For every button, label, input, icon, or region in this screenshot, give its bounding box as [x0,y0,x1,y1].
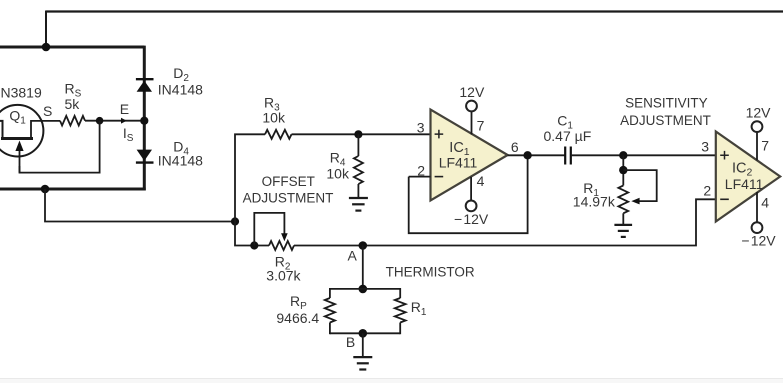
wire R3 to IC1 [292,133,432,135]
svg-text:ADJUSTMENT: ADJUSTMENT [620,113,711,128]
wire lower rail [294,199,716,245]
svg-text:Q1: Q1 [9,108,26,127]
wire IC2 pin4 stub [756,192,758,222]
wire thermistor top rail [330,288,400,290]
svg-text:R1: R1 [411,299,427,318]
wire source feedback [20,121,100,173]
svg-text:3: 3 [417,120,425,136]
wire R4 bottom stub [357,184,359,198]
resistor R1 pot zigzag [618,186,628,214]
node junction bottom-left [41,185,50,194]
potentiometer R1 wiper arrowhead [631,198,639,205]
potentiometer R2 wiper arrowhead [281,233,288,241]
svg-text:THERMISTOR: THERMISTOR [386,264,475,279]
op-amp IC2 minus sign [720,198,729,200]
node E junction [140,117,148,125]
resistor R4 zigzag [354,156,363,184]
svg-text:10k: 10k [262,109,286,125]
svg-text:LF411: LF411 [439,154,478,170]
transistor Q1 channel bar [1,137,33,140]
capacitor C1 plates [565,147,571,165]
wire R4 top stub [357,134,359,156]
node IC1 output junction [523,151,531,159]
wire bottom-left drop [45,189,235,222]
wire C1 to IC2 [571,154,716,156]
svg-text:3: 3 [701,139,709,155]
svg-text:IS: IS [123,125,134,144]
svg-text:OFFSET: OFFSET [262,174,315,189]
svg-text:0.47 µF: 0.47 µF [544,128,592,144]
svg-text:5k: 5k [65,96,81,112]
svg-text:S: S [43,103,52,119]
svg-text:E: E [120,101,129,117]
wire R1t top stub [399,288,401,298]
wire top rail drop [45,11,47,48]
diode D4 bar [136,161,154,163]
svg-text:12V: 12V [746,105,772,121]
svg-text:4: 4 [477,173,485,189]
wire R3 left drop [235,134,269,245]
ground B [353,356,372,358]
wire IC1 pin7 stub [471,112,473,135]
svg-text:12V: 12V [459,84,485,100]
op-amp IC1 triangle [431,110,508,201]
svg-text:14.97k: 14.97k [573,194,616,210]
supply terminal IC2 -12V [752,222,763,233]
supply terminal IC1 +12V [466,101,477,112]
wire R1 stub [622,155,624,185]
wire IC1 pin4 stub [470,177,472,201]
wire bus bottom [0,188,146,191]
transistor Q1 drain lead [0,121,3,140]
bottom page strip [0,379,783,383]
resistor R3 zigzag [265,130,292,139]
wire IC1 minus input [409,176,431,178]
svg-text:2: 2 [703,183,711,199]
diode D2 bar [136,78,154,80]
svg-text:10k: 10k [326,166,350,182]
wire R1t bottom stub [399,323,401,335]
wire IC1 feedback loop [409,155,528,233]
op-amp IC1 minus sign [435,176,444,178]
op-amp IC2 triangle [716,132,780,222]
svg-text:IN4148: IN4148 [158,153,203,169]
svg-text:− 12V: − 12V [741,233,776,249]
svg-text:ADJUSTMENT: ADJUSTMENT [243,191,334,206]
transistor Q1 gate arrowhead [15,141,23,152]
wire RP top stub [329,288,331,298]
op-amp IC2 plus sign [720,151,729,160]
svg-text:7: 7 [477,118,485,134]
node R1 wiper junction [619,166,627,174]
node B junction [359,329,368,338]
resistor R2 zigzag [269,241,294,250]
node feedback junction [231,217,239,225]
svg-text:N3819: N3819 [1,84,42,100]
svg-text:9466.4: 9466.4 [276,310,319,326]
svg-text:3.07k: 3.07k [266,268,301,284]
node thermistor top [359,285,368,294]
svg-text:− 12V: − 12V [454,211,489,227]
wire top rail [46,10,783,12]
svg-text:7: 7 [761,138,769,154]
ground R1 pot [614,224,632,226]
wire thermistor bottom rail [330,332,400,334]
resistor RP zigzag [325,298,335,322]
current arrow IS [121,118,127,124]
wire IC1 output [508,154,566,156]
node S-RS junction [96,117,104,125]
ground R4 [349,197,368,199]
svg-text:B: B [346,334,355,350]
resistor R1 thermistor zigzag [395,298,406,322]
svg-text:6: 6 [511,139,519,155]
node R4 junction [354,130,362,138]
node junction top-left [42,43,51,52]
wire B ground stub [362,333,364,357]
wire IC2 pin7 stub [756,132,758,160]
node R1 top junction [619,151,627,159]
supply terminal IC1 -12V [466,201,477,212]
wire RS to node E [85,120,144,122]
op-amp IC1 plus sign [435,130,444,139]
wire node A drop [362,246,364,289]
supply terminal IC2 +12V [752,121,763,132]
svg-text:4: 4 [761,195,769,211]
wire R1 ground stub [622,213,624,225]
wire bus top [0,46,144,49]
node R2 left junction [250,241,258,249]
diode D4 triangle [137,150,152,161]
node A [359,241,368,250]
svg-text:A: A [348,248,358,264]
potentiometer R1 wiper loop [623,170,656,201]
svg-text:SENSITIVITY: SENSITIVITY [625,95,708,110]
svg-text:IN4148: IN4148 [158,82,203,98]
svg-text:LF411: LF411 [725,176,764,192]
potentiometer R2 wiper loop [254,213,284,246]
wire bus right (diode branch) [143,46,146,191]
wire RP bottom stub [329,323,331,335]
diode D2 triangle [137,81,152,92]
transistor Q1 source lead [31,121,60,140]
resistor RS zigzag [60,116,85,126]
transistor Q1 gate arrow shaft [19,146,21,173]
transistor Q1 circle [0,105,43,157]
